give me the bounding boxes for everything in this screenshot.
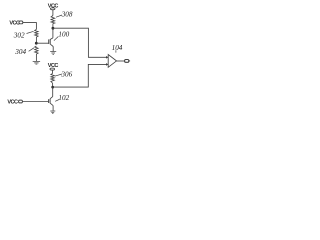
wire node B to gate input 1 <box>53 28 106 57</box>
wire VCC1 to R302 top <box>23 23 37 30</box>
svg-text:308: 308 <box>61 11 73 19</box>
wire R302 to node A <box>35 37 37 43</box>
wire node C to gate input 2 <box>53 64 106 87</box>
comparator U104 triangle <box>108 55 116 68</box>
svg-text:100: 100 <box>58 31 69 39</box>
wire VCC3 to Q102 gate <box>22 101 48 103</box>
transistor Q100 <box>49 28 54 51</box>
svg-text:306: 306 <box>60 71 72 79</box>
label 308 with leader <box>56 11 73 19</box>
node C (Q102 drain node) junction dot <box>51 86 54 89</box>
wire VCC2 to R308 <box>52 10 54 16</box>
wire R308 to node B <box>52 24 54 29</box>
power terminal VCC (bottom left) <box>7 99 22 105</box>
svg-text:VCC: VCC <box>9 21 20 27</box>
power terminal VCC (top center) <box>48 3 59 10</box>
svg-text:302: 302 <box>13 32 25 40</box>
label 102 with leader <box>55 94 69 102</box>
svg-text:VCC: VCC <box>7 99 18 105</box>
resistor R302 <box>35 29 38 37</box>
svg-text:VCC: VCC <box>48 3 59 9</box>
wire R306 to node C <box>52 83 54 87</box>
transistor Q102 <box>49 87 54 110</box>
power terminal VCC (above R306) <box>48 63 59 70</box>
label 100 with leader <box>54 31 70 41</box>
ground (below Q100) <box>50 52 56 55</box>
ground (below Q102) <box>50 111 55 113</box>
resistor R308 <box>51 16 55 24</box>
label 104 with leader <box>112 44 123 53</box>
wire gate output <box>116 60 124 62</box>
arrowhead gate input 2 <box>106 63 108 66</box>
wire R304 to ground <box>35 54 37 61</box>
svg-text:102: 102 <box>58 94 69 102</box>
power terminal VCC (top left) <box>9 21 22 27</box>
label 302 with leader <box>13 31 34 39</box>
svg-text:104: 104 <box>112 44 123 52</box>
node B (Q100 drain node) junction dot <box>52 27 55 30</box>
label 304 with leader <box>14 48 34 56</box>
wire VCC4 to R306 <box>52 70 54 74</box>
resistor R306 <box>51 74 54 84</box>
output terminal <box>125 60 131 63</box>
resistor R304 <box>35 46 38 54</box>
node A (divider midpoint) junction dot <box>35 42 38 45</box>
wire node A to Q100 gate <box>36 42 48 44</box>
ground (below R304) <box>33 61 40 64</box>
arrowhead gate input 1 <box>106 56 108 59</box>
label 306 with leader <box>55 71 73 79</box>
svg-text:304: 304 <box>14 48 26 56</box>
